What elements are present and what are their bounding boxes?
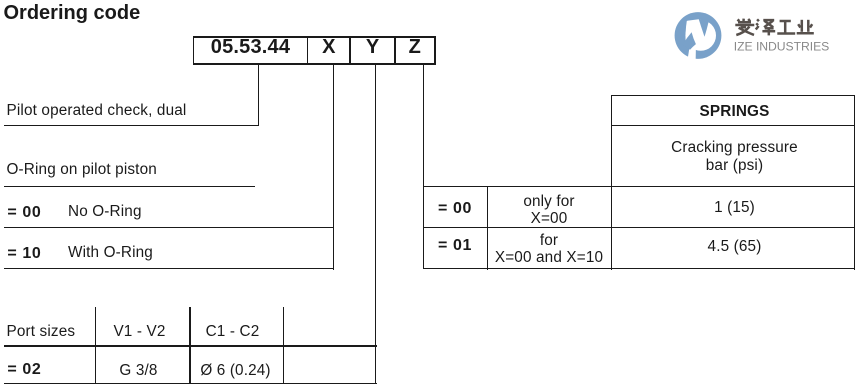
h-line table bottom	[4, 383, 377, 384]
logo CJK char ye	[797, 20, 814, 34]
v-line springs right edge	[854, 95, 855, 270]
text SPRINGS	[613, 103, 856, 120]
h-line under SPRINGS	[611, 125, 855, 126]
v-line col1	[95, 307, 96, 384]
h-line springs top	[611, 95, 855, 96]
ordering code box 05.53.44 | X | Y | Z	[193, 36, 436, 38]
v-line col3	[283, 307, 284, 384]
logo blue disc	[675, 12, 722, 59]
logo white tail	[688, 43, 696, 62]
underline pilot	[4, 125, 259, 126]
drop line from Z	[423, 65, 424, 269]
underline =10	[4, 268, 334, 269]
text cracking pressure	[613, 139, 856, 175]
logo CJK char ze	[756, 19, 775, 35]
box text Y	[351, 39, 394, 56]
logo white inner shape	[685, 20, 716, 51]
box text X	[308, 39, 349, 56]
label: O-Ring on pilot piston	[7, 161, 157, 178]
logo CJK char gong	[777, 21, 795, 34]
h-line springs row divider	[423, 227, 855, 228]
h-line springs bottom	[423, 268, 855, 269]
row =00 No O-Ring	[7, 204, 41, 221]
logo white left band	[686, 21, 693, 48]
logo white blunt top-left	[687, 19, 701, 27]
logo blue kite bottom-left	[683, 32, 696, 50]
v-line col2	[189, 307, 190, 384]
text diameter 6	[189, 362, 282, 379]
h-line under header	[4, 345, 377, 346]
drop line from 05.53.44	[258, 65, 259, 126]
text V1 - V2	[93, 323, 186, 340]
drop line from X	[333, 65, 334, 270]
drop line from Y	[375, 65, 376, 383]
h-line springs rows top	[423, 186, 855, 187]
logo CJK char ai	[735, 19, 754, 35]
IZE logo	[670, 8, 864, 64]
text 4.5 (65)	[613, 238, 856, 255]
label: Pilot operated check, dual	[7, 102, 187, 119]
v-line springs left col	[611, 95, 612, 270]
box text 05.53.44	[194, 39, 306, 56]
logo blue wedge top	[699, 19, 709, 37]
v-line springs col2	[487, 187, 488, 270]
text C1 - C2	[186, 323, 279, 340]
svg-text:IZE INDUSTRIES: IZE INDUSTRIES	[734, 39, 829, 53]
text =02	[7, 361, 41, 378]
text for X=00 and X=10	[487, 232, 611, 266]
underline =00	[4, 227, 334, 228]
heading "Ordering code"	[4, 5, 141, 22]
box text Z	[396, 39, 434, 56]
text only for X=00	[487, 193, 611, 227]
text =00 springs	[423, 200, 487, 217]
text G 3/8	[92, 362, 185, 379]
text Port sizes	[7, 323, 76, 340]
underline o-ring	[4, 186, 255, 187]
text 1 (15)	[613, 199, 856, 216]
row =10 With O-Ring	[7, 245, 41, 262]
text =01 springs	[423, 237, 487, 254]
